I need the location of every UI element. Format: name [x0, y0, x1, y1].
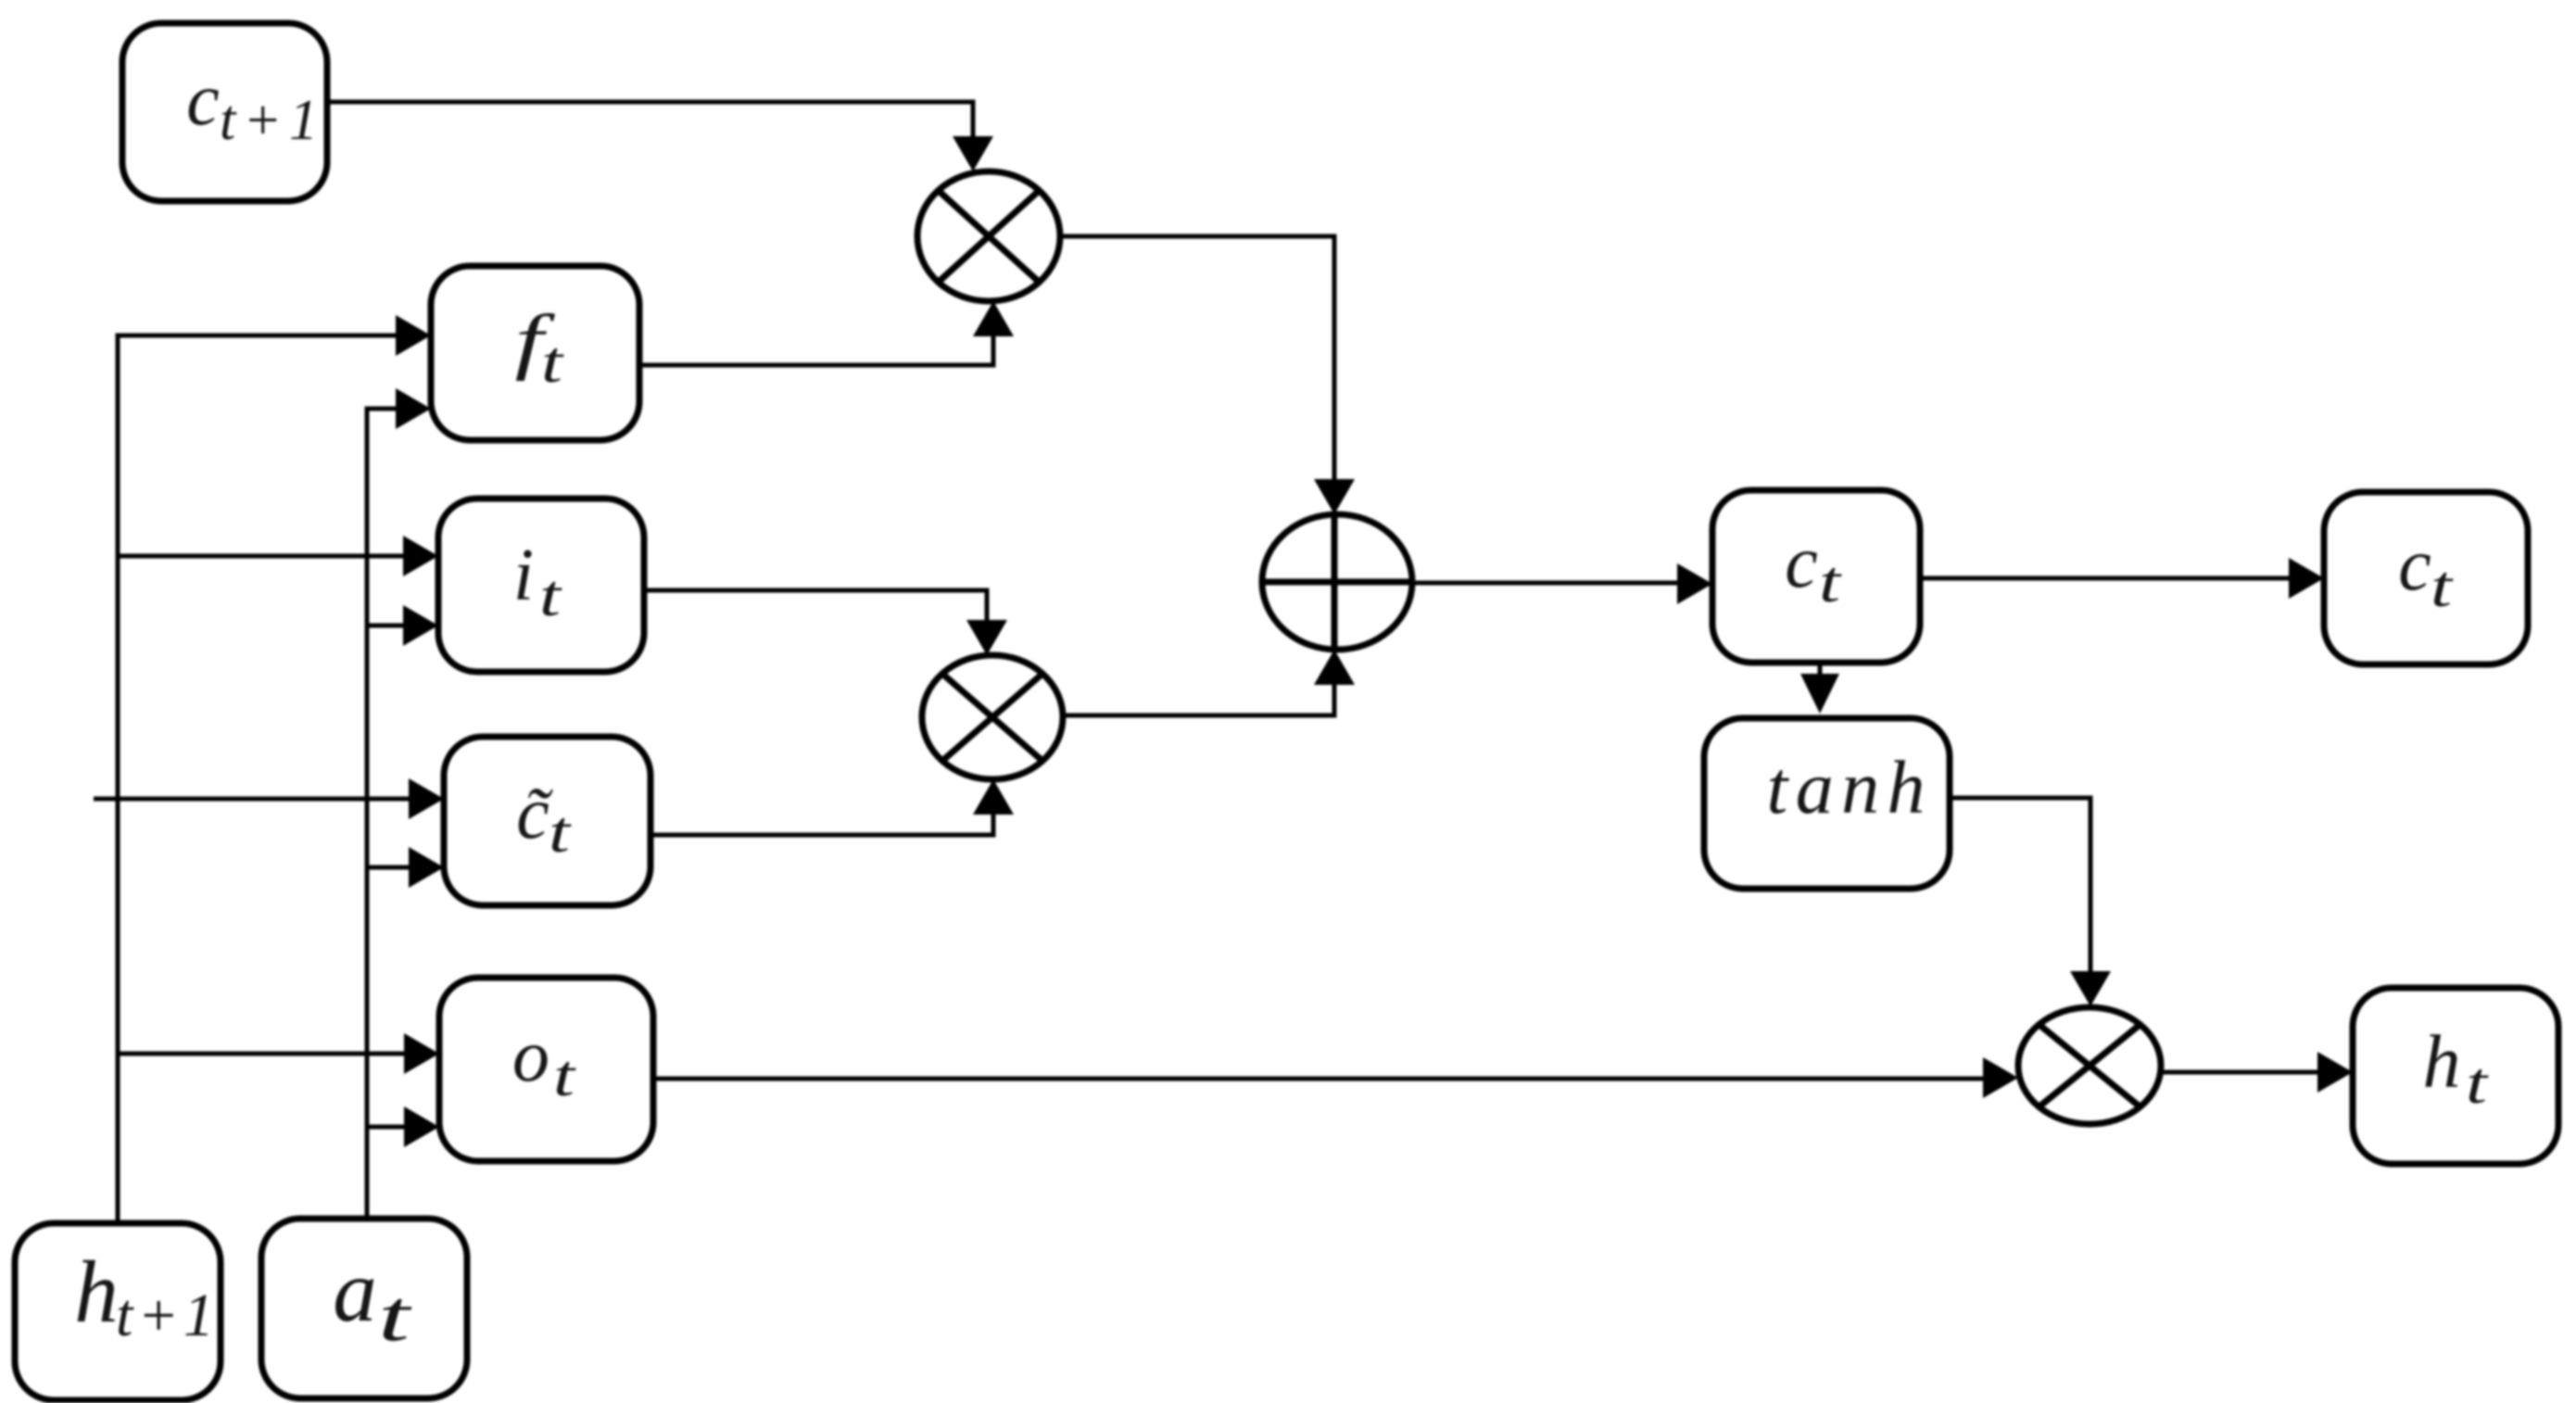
- multiply node M2: [922, 655, 1063, 779]
- svg-text:t: t: [539, 562, 563, 628]
- svg-text:h: h: [2423, 1019, 2461, 1104]
- wire rail1 to c~_t: [94, 797, 409, 802]
- arrowhead into i_t input 2: [403, 605, 438, 646]
- wire i_t to multiply M2: [644, 590, 987, 620]
- wire M3 to h_t: [2161, 1070, 2317, 1075]
- svg-text:a: a: [333, 1242, 377, 1340]
- wire rail1 to o_t: [118, 1052, 404, 1056]
- box c~_t: [444, 737, 650, 905]
- box c_t+1: [122, 23, 327, 201]
- wire c~_t to multiply M2: [650, 815, 993, 835]
- box o_t: [439, 978, 653, 1161]
- arrowhead into M3 left: [1983, 1057, 2018, 1098]
- wire c_t to c_t output: [1920, 576, 2289, 581]
- wire rail2 to o_t: [367, 1125, 404, 1130]
- wire f_t to multiply M1: [639, 336, 993, 365]
- arrowhead into M1 bottom: [973, 301, 1014, 336]
- arrowhead into M1 top: [953, 136, 993, 171]
- wire rail from a_t: [367, 409, 396, 1219]
- svg-text:i: i: [513, 535, 534, 616]
- arrowhead into o_t input 2: [404, 1106, 439, 1147]
- multiply node M1: [917, 171, 1060, 301]
- svg-text:t: t: [553, 1043, 577, 1108]
- arrowhead into P1 top: [1314, 479, 1355, 514]
- arrowhead into c~_t input 1: [409, 778, 444, 819]
- box f_t: [431, 266, 639, 440]
- arrowhead into M3 top: [2070, 971, 2111, 1006]
- arrowhead into tanh top: [1800, 674, 1839, 714]
- svg-text:o: o: [512, 1016, 549, 1097]
- wire c_t+1 to multiply M1: [327, 102, 973, 136]
- arrowhead into o_t input 1: [404, 1033, 439, 1074]
- svg-text:c: c: [1785, 522, 1818, 603]
- arrowhead into c_t left: [1677, 563, 1712, 604]
- wire tanh to multiply M3: [1950, 798, 2090, 971]
- svg-text:c: c: [186, 59, 220, 141]
- svg-text:t: t: [1819, 549, 1843, 614]
- svg-text:t: t: [2466, 1050, 2490, 1116]
- box tanh: [1704, 718, 1950, 889]
- svg-text:t: t: [541, 329, 565, 395]
- svg-text:t+1: t+1: [116, 1282, 214, 1349]
- arrowhead into c~_t input 2: [409, 847, 444, 888]
- svg-text:c: c: [2398, 525, 2431, 606]
- arrowhead into f_t input 1: [396, 315, 431, 356]
- svg-text:h: h: [74, 1243, 119, 1341]
- arrowhead into f_t input 2: [396, 388, 431, 429]
- wire o_t to multiply M3: [653, 1077, 1983, 1081]
- wire M2 to plus P1: [1063, 685, 1334, 715]
- arrowhead into M2 top: [966, 620, 1007, 655]
- plus node P1: [1262, 514, 1412, 650]
- arrowhead into i_t input 1: [403, 536, 438, 576]
- arrowhead into h_t left: [2317, 1052, 2353, 1093]
- wire P1 to c_t: [1412, 581, 1677, 586]
- arrowhead into M2 bottom: [973, 779, 1014, 815]
- wire M1 to plus P1: [1060, 236, 1334, 479]
- svg-text:t: t: [2431, 553, 2455, 619]
- multiply node M3: [2018, 1007, 2161, 1124]
- svg-text:t+1: t+1: [220, 89, 318, 152]
- arrowhead into c_t output left: [2289, 558, 2324, 599]
- box h_t+1: [15, 1223, 221, 1400]
- box h_t: [2353, 988, 2558, 1164]
- box c_t output: [2324, 492, 2528, 664]
- arrowhead into P1 bottom: [1314, 650, 1355, 685]
- wire c_t down to tanh: [1818, 663, 1823, 675]
- box c_t: [1712, 490, 1920, 663]
- svg-text:t: t: [378, 1275, 413, 1356]
- box a_t: [261, 1219, 467, 1398]
- wire rail2 to i_t: [367, 624, 403, 628]
- wire rail from h_t+1: [118, 335, 396, 1223]
- wire rail2 to c~_t: [367, 866, 409, 870]
- wire rail1 to i_t: [118, 554, 403, 559]
- box i_t: [438, 499, 644, 672]
- svg-text:t: t: [549, 799, 573, 865]
